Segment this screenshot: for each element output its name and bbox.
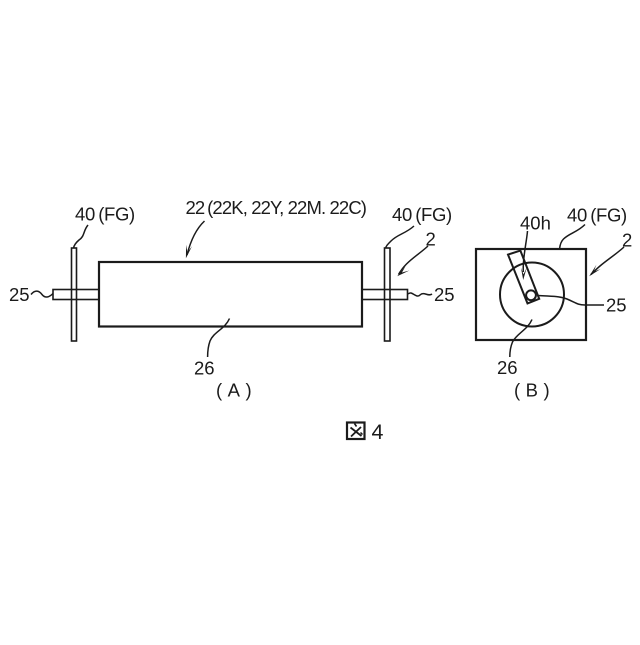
frame plate 2 (view B) [476,249,586,340]
svg-text:(B): (B) [514,380,555,401]
leader line from 40(FG) to left flange [74,225,88,248]
arrow from label 22 to roller top edge [187,221,205,255]
svg-text:(A): (A) [216,380,257,401]
leader line from right 40(FG) to right flange [386,226,414,248]
svg-text:40h: 40h [520,213,551,234]
leader line from 26 into roller body [208,319,230,358]
svg-text:26: 26 [497,357,518,378]
shaft end 25 (view B) [526,290,536,300]
leader line from 40(FG) to frame top edge [560,225,585,249]
leader line from 26 into circle [510,320,532,358]
roller end circle 26 (view B) [500,263,564,327]
left shaft 25 (view A) [53,290,99,300]
svg-text:40 (FG): 40 (FG) [75,204,135,225]
svg-text:25: 25 [606,295,627,316]
roller body 26 (view A) [99,262,362,327]
right shaft 25 (view A) [362,290,408,300]
svg-text:25: 25 [9,284,30,305]
svg-text:40 (FG): 40 (FG) [392,204,452,225]
slot 40h (view B) [508,251,539,304]
caption 図4 : hand-drawn kanji 図 [347,423,365,440]
arrow from 2 to frame right edge [591,247,624,275]
svg-text:40 (FG): 40 (FG) [567,205,627,226]
right flange disc 40 (view A) [385,248,391,341]
leader line from shaft end to 25 [538,296,604,306]
arrow from 40h into slot [523,231,527,272]
svg-text:22 (22K, 22Y, 22M. 22C): 22 (22K, 22Y, 22M. 22C) [186,197,367,218]
svg-text:25: 25 [434,284,455,305]
left flange disc 40 (view A) [72,248,77,341]
squiggle from 25 to left shaft [31,291,53,297]
svg-text:26: 26 [194,358,215,379]
squiggle from right shaft to 25 [408,293,432,296]
svg-text:4: 4 [372,420,384,444]
arrow from label 2 to view A [399,246,429,275]
